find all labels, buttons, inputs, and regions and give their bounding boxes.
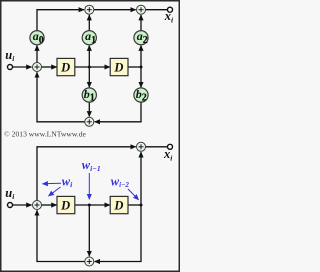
frame inner bevel bottom <box>2 269 179 271</box>
wire: top adder to output node (bottom) <box>146 146 168 148</box>
input adder bottom diagram <box>33 201 42 210</box>
wire: input node to input adder (bottom) <box>12 204 31 206</box>
svg-text:D: D <box>113 60 123 74</box>
bottom adder bottom diagram <box>85 257 94 266</box>
wire: right junction down to b2 <box>140 67 142 87</box>
wire: input adder to delay D1 (bottom) <box>42 204 57 206</box>
wire: a1 up to top adder 1 <box>88 15 90 31</box>
input adder top diagram <box>33 63 42 72</box>
coefficient b2 <box>134 87 148 104</box>
wire: input node to input adder <box>12 66 31 68</box>
frame inner bevel right <box>177 2 179 271</box>
wire: input adder up and right to top adder (bottom) <box>37 147 136 201</box>
svg-text:D: D <box>113 198 123 212</box>
wire: bottom adder left and up to input adder <box>37 72 85 122</box>
wire: a2 up to top adder 2 <box>140 15 142 31</box>
coefficient a0 <box>30 29 44 46</box>
wire: D2 to right junction <box>128 66 141 68</box>
bottom adder top diagram <box>85 117 94 126</box>
top adder 1 <box>85 5 94 14</box>
wire: bottom adder left and up to input adder (bottom) <box>37 210 85 261</box>
label w_i-2 with pointer arrow <box>111 174 139 200</box>
coefficient a2 <box>134 29 148 46</box>
wire: middle junction down to b1 <box>88 67 90 87</box>
delay block D1 top <box>57 58 75 75</box>
junction middle <box>88 66 91 69</box>
wire: D1 to D2 (bottom) <box>75 204 110 206</box>
wire: right junction up to top adder (bottom) <box>140 152 142 205</box>
label w_i-1 with pointer arrow <box>82 158 101 199</box>
wire: input adder to delay D1 <box>42 66 57 68</box>
input node u <box>8 65 13 70</box>
delay block D2 bottom <box>110 196 128 213</box>
svg-text:© 2013 www.LNTwww.de: © 2013 www.LNTwww.de <box>4 130 87 139</box>
junction right <box>140 66 143 69</box>
svg-text:D: D <box>60 60 70 74</box>
frame border <box>1 1 180 272</box>
wire: a0 up and right to top adder 1 <box>37 10 84 31</box>
wire: D1 to D2 through node w <box>75 66 110 68</box>
wire: top adder 1 to top adder 2 <box>94 9 136 11</box>
wire: b2 down and left to bottom adder <box>95 102 141 122</box>
coefficient a1 <box>82 29 96 46</box>
wire: middle junction down to bottom adder (bottom) <box>88 205 90 256</box>
wire: middle junction up to a1 <box>88 46 90 68</box>
junction right (bottom) <box>140 204 143 207</box>
output node x top <box>168 7 173 12</box>
wire: input adder up to a0 <box>36 46 38 63</box>
output node x bottom <box>168 144 173 149</box>
top adder bottom diagram <box>137 142 146 151</box>
svg-text:D: D <box>60 198 70 212</box>
wire: b1 down to bottom adder <box>88 102 90 117</box>
delay block D2 top <box>110 58 128 75</box>
top adder 2 <box>137 5 146 14</box>
input node u (bottom) <box>8 203 13 208</box>
delay block D1 bottom <box>57 196 75 213</box>
label w_i with pointer arrows <box>43 174 74 196</box>
wire: D2 to right junction (bottom) <box>128 204 141 206</box>
wire: right junction up to a2 <box>140 46 142 68</box>
wire: top adder 2 to output node <box>146 9 168 11</box>
junction middle (bottom) <box>88 204 91 207</box>
wire: right junction down and left to bottom adder (bottom) <box>95 205 141 262</box>
coefficient b1 <box>82 87 96 104</box>
